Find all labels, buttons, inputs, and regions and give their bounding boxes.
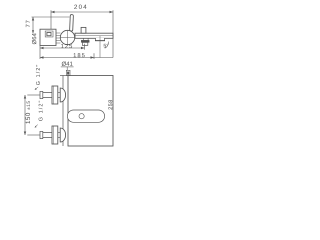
upper pipe xyxy=(43,93,52,98)
dim text 185 xyxy=(74,53,85,57)
leader arrow upper xyxy=(35,88,37,90)
cartridge inner block xyxy=(47,33,51,36)
arrow 185 left xyxy=(40,56,44,58)
arrow 77 bottom xyxy=(32,30,34,33)
handle circle xyxy=(60,30,74,44)
Ø41 underline xyxy=(61,66,74,68)
lower stub xyxy=(58,133,60,138)
upper stub xyxy=(58,93,60,98)
label Ø41 xyxy=(62,62,73,66)
body line left xyxy=(62,76,64,147)
dim line 77 xyxy=(32,17,34,33)
under-bar flange band xyxy=(81,40,89,42)
lower dome xyxy=(60,128,65,142)
dim text 204 xyxy=(74,5,86,9)
extension line lever top xyxy=(32,16,70,18)
holder base line xyxy=(95,40,105,42)
5deg arc arrow xyxy=(105,42,109,49)
arrow 77 top xyxy=(32,17,34,21)
arrow 125 right xyxy=(81,47,85,49)
label 5deg xyxy=(104,44,108,48)
label Ø64 xyxy=(32,33,36,44)
upper dome xyxy=(60,88,65,102)
upper flange inner line xyxy=(52,86,54,104)
extension line x113 xyxy=(112,10,114,57)
dim text 125 xyxy=(61,44,72,48)
lower flange xyxy=(52,126,58,144)
leader G 1/2 upper xyxy=(36,87,38,89)
front view: extension line upper xyxy=(27,94,40,96)
arrow 204 left xyxy=(51,11,55,13)
aerator circle xyxy=(79,114,84,119)
holder 5deg xyxy=(96,38,105,41)
tick x84 xyxy=(84,44,86,50)
dim text 258 xyxy=(108,100,112,110)
under-bar flange xyxy=(83,38,88,40)
plan rectangle xyxy=(68,76,113,147)
cartridge bracket xyxy=(45,31,53,37)
upper flange xyxy=(52,86,58,104)
body square (escutcheon side view) xyxy=(40,29,56,45)
dim line 125 xyxy=(40,47,85,49)
arrow 125 left xyxy=(40,47,44,49)
arrow 204 right xyxy=(110,11,114,13)
dim line 185 xyxy=(40,57,113,59)
holder knob on plan xyxy=(66,70,70,75)
extension line x51 xyxy=(50,10,52,29)
dim line 150 xyxy=(24,95,26,135)
tick x94 xyxy=(93,53,95,59)
holder centerline xyxy=(99,36,101,58)
leader G 1/2 lower xyxy=(35,125,38,127)
leader arrow lower xyxy=(35,126,37,128)
Ø41 leader xyxy=(66,67,68,70)
wall bar (deck section) xyxy=(75,33,113,38)
lower connection cap xyxy=(40,131,43,138)
lower flange inner line xyxy=(52,126,54,144)
arrow 150 top xyxy=(24,95,26,99)
bar inner line xyxy=(75,35,113,37)
dim text 77 xyxy=(26,20,30,27)
dim text 150 ±15 xyxy=(26,101,30,123)
diverter knob xyxy=(81,27,86,33)
arrow 150 bottom xyxy=(24,132,26,136)
spout stadium xyxy=(67,110,104,122)
arrow 185 right xyxy=(91,56,95,58)
upper connection cap xyxy=(40,91,43,98)
label G 1/2 lower xyxy=(38,101,42,121)
lever handle xyxy=(70,15,74,32)
dim line 204 xyxy=(51,11,113,13)
front view: extension line lower xyxy=(27,134,40,136)
under-bar nut xyxy=(82,42,87,45)
plan rect top edge extension xyxy=(60,75,68,77)
label G 1/2 upper xyxy=(36,65,40,85)
lower pipe xyxy=(43,133,52,138)
hatch lines body-wall xyxy=(56,33,60,43)
holder knob fill xyxy=(67,72,69,75)
circle crosshair xyxy=(60,30,75,44)
extension line x40 xyxy=(39,46,41,60)
